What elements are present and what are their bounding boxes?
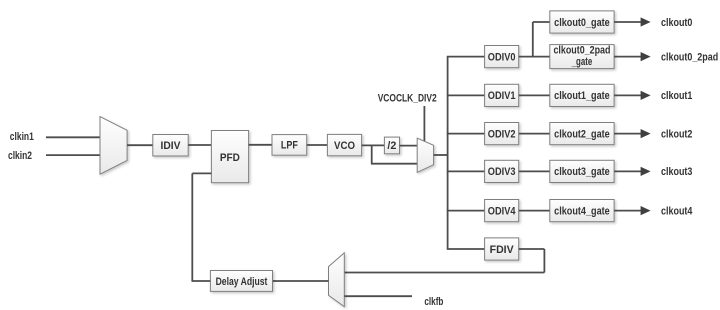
- svg-text:/2: /2: [387, 140, 396, 152]
- svg-text:clkout4_gate: clkout4_gate: [554, 205, 610, 217]
- svg-text:ODIV2: ODIV2: [488, 128, 516, 140]
- svg-text:clkout0_2pad: clkout0_2pad: [553, 45, 610, 57]
- svg-text:_gate: _gate: [571, 56, 592, 68]
- svg-text:LPF: LPF: [281, 140, 298, 152]
- svg-text:ODIV3: ODIV3: [488, 166, 516, 178]
- svg-text:FDIV: FDIV: [490, 244, 515, 256]
- svg-text:VCO: VCO: [334, 140, 355, 152]
- svg-text:clkout0: clkout0: [661, 17, 692, 29]
- svg-text:clkout2: clkout2: [661, 128, 692, 140]
- svg-text:clkout1: clkout1: [661, 90, 692, 102]
- svg-text:clkin2: clkin2: [8, 150, 32, 162]
- svg-text:PFD: PFD: [220, 152, 240, 164]
- svg-text:ODIV1: ODIV1: [488, 90, 516, 102]
- svg-text:ODIV4: ODIV4: [488, 205, 516, 217]
- svg-text:clkout3_gate: clkout3_gate: [554, 166, 610, 178]
- svg-text:clkout3: clkout3: [661, 166, 692, 178]
- svg-text:ODIV0: ODIV0: [488, 51, 516, 63]
- svg-text:VCOCLK_DIV2: VCOCLK_DIV2: [378, 93, 437, 105]
- svg-text:Delay Adjust: Delay Adjust: [216, 276, 268, 288]
- svg-text:clkin1: clkin1: [10, 131, 34, 143]
- svg-text:clkout4: clkout4: [661, 205, 693, 217]
- svg-text:clkout1_gate: clkout1_gate: [554, 90, 610, 102]
- svg-text:IDIV: IDIV: [161, 140, 182, 152]
- svg-text:clkfb: clkfb: [424, 296, 443, 308]
- svg-text:clkout2_gate: clkout2_gate: [554, 128, 610, 140]
- svg-text:clkout0_gate: clkout0_gate: [554, 17, 610, 29]
- svg-text:clkout0_2pad: clkout0_2pad: [661, 51, 718, 63]
